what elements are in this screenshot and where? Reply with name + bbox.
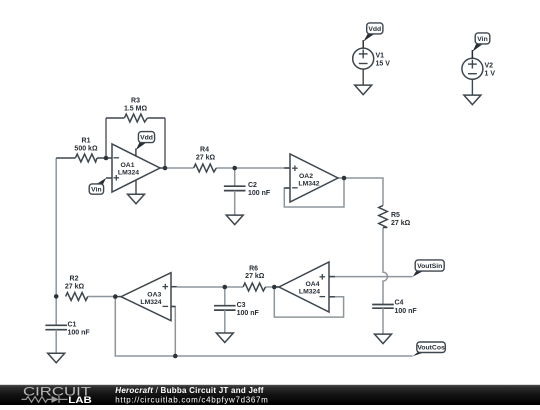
net flag VoutCos	[413, 342, 446, 356]
svg-text:LM324: LM324	[299, 289, 320, 296]
net flag VoutSin	[413, 260, 445, 277]
resistor R4 27 kOhm	[194, 146, 217, 172]
svg-text:27 kΩ: 27 kΩ	[196, 155, 216, 162]
svg-text:R5: R5	[391, 212, 400, 219]
wire R5 bottom to hop to C4 (hop over VoutSin wire)	[383, 228, 388, 305]
svg-text:LM324: LM324	[140, 299, 161, 306]
svg-text:R4: R4	[200, 146, 209, 153]
op-amp OA3 LM324	[115, 273, 177, 321]
svg-text:15 V: 15 V	[376, 61, 391, 68]
svg-text:27 kΩ: 27 kΩ	[391, 220, 411, 227]
node R2/C1/left rail junction	[54, 294, 59, 299]
ground at OA1 V- pin	[128, 180, 145, 204]
svg-text:OA2: OA2	[299, 173, 313, 180]
svg-text:VoutCos: VoutCos	[417, 345, 445, 352]
wire R4 to C2 node to OA2 + input	[216, 167, 290, 169]
svg-text:100 nF: 100 nF	[237, 310, 260, 317]
wire OA2 minus feedback loop	[284, 178, 344, 207]
net flag Vin on V2	[472, 33, 489, 59]
wire R6 right to OA4 output node	[265, 286, 279, 288]
svg-text:100 nF: 100 nF	[395, 308, 418, 315]
op-amp OA4 LM324	[274, 262, 335, 312]
svg-text:Vin: Vin	[477, 36, 487, 43]
svg-text:C3: C3	[237, 302, 246, 309]
resistor R2 27 kOhm	[65, 275, 115, 300]
svg-text:http://circuitlab.com/c4bpfyw7: http://circuitlab.com/c4bpfyw7d367m	[115, 396, 268, 405]
wire R3 feedback loop left vertical	[105, 118, 107, 158]
wire OA4 minus feedback loop	[274, 287, 343, 317]
node OA2 output junction	[342, 176, 347, 181]
svg-text:100 nF: 100 nF	[248, 190, 271, 197]
svg-text:C2: C2	[248, 182, 257, 189]
svg-text:V1: V1	[376, 53, 385, 60]
svg-text:1 V: 1 V	[485, 71, 496, 78]
svg-text:VoutSin: VoutSin	[417, 263, 442, 270]
svg-text:C4: C4	[395, 300, 404, 307]
svg-text:27 kΩ: 27 kΩ	[245, 273, 265, 280]
wire left rail (C1/R2 node up to R1)	[55, 158, 57, 296]
node OA1 output junction	[163, 166, 168, 171]
node R6/OA4 output junction	[272, 285, 277, 290]
svg-text:OA3: OA3	[147, 291, 161, 298]
voltage source V1 15 V	[353, 40, 391, 85]
node R1/R3/OA1- junction	[104, 156, 109, 161]
wire OA1 output to R4	[165, 167, 194, 169]
node R4/C2/OA2+ junction	[232, 166, 237, 171]
svg-text:LAB: LAB	[68, 395, 92, 405]
capacitor C1 100 nF	[45, 296, 90, 353]
ground below C3	[216, 333, 233, 343]
resistor R1 500 kOhm	[56, 137, 106, 162]
net flag Vdd on OA1 V+ pin	[136, 132, 155, 157]
ground below V1	[355, 85, 372, 95]
wire R3 feedback loop right vertical	[164, 118, 166, 168]
ground below C2	[226, 215, 243, 225]
svg-text:R1: R1	[82, 137, 91, 144]
svg-text:Herocraft / Bubba Circuit JT a: Herocraft / Bubba Circuit JT and Jeff	[115, 386, 263, 395]
wire OA4 + input to VoutSin flag	[329, 276, 413, 278]
svg-text:500 kΩ: 500 kΩ	[74, 145, 98, 152]
svg-text:V2: V2	[485, 63, 494, 70]
node OA3 output/R2 junction	[113, 294, 118, 299]
capacitor C3 100 nF	[214, 287, 259, 333]
svg-text:27 kΩ: 27 kΩ	[65, 284, 85, 291]
resistor R6 27 kOhm	[243, 265, 265, 291]
svg-text:Vdd: Vdd	[368, 26, 381, 33]
node C3/R6/OA3+ junction	[223, 285, 228, 290]
capacitor C4 100 nF	[372, 300, 417, 335]
svg-text:C1: C1	[68, 321, 77, 328]
net flag Vdd on V1	[363, 23, 383, 49]
svg-text:LM324: LM324	[118, 170, 139, 177]
svg-text:LM342: LM342	[298, 180, 319, 187]
wire OA3 output node down + bottom rail to VoutCos	[115, 297, 412, 356]
svg-text:OA4: OA4	[306, 281, 320, 288]
resistor R5 27 kOhm	[379, 206, 411, 228]
wire OA2 output to R5 top corner	[338, 178, 383, 206]
svg-text:R3: R3	[131, 98, 140, 105]
voltage source V2 1 V	[462, 50, 495, 95]
capacitor C2 100 nF	[224, 168, 271, 215]
op-amp OA2 LM342	[284, 154, 338, 202]
ground below C4	[375, 334, 392, 344]
svg-text:OA1: OA1	[121, 162, 135, 169]
svg-text:Vdd: Vdd	[140, 135, 153, 142]
ground below V2	[464, 95, 481, 105]
CircuitLab logo text	[23, 384, 92, 404]
CircuitLab logo resistor-diode glyph	[22, 396, 68, 403]
ground below C1	[48, 353, 65, 363]
svg-text:1.5 MΩ: 1.5 MΩ	[124, 106, 148, 113]
svg-text:100 nF: 100 nF	[68, 330, 91, 337]
node OA3 feedback/bottom rail junction	[173, 354, 178, 359]
op-amp OA1 LM324	[106, 144, 165, 192]
net flag Vin on OA1 + input	[89, 178, 106, 194]
resistor R3 1.5 MOhm	[106, 98, 165, 123]
wire R6 node to OA3 + input	[177, 286, 243, 288]
svg-text:Vin: Vin	[91, 186, 101, 193]
svg-text:R6: R6	[249, 265, 258, 272]
wire OA3 minus feedback down to bottom rail	[171, 307, 175, 357]
svg-text:R2: R2	[70, 275, 79, 282]
